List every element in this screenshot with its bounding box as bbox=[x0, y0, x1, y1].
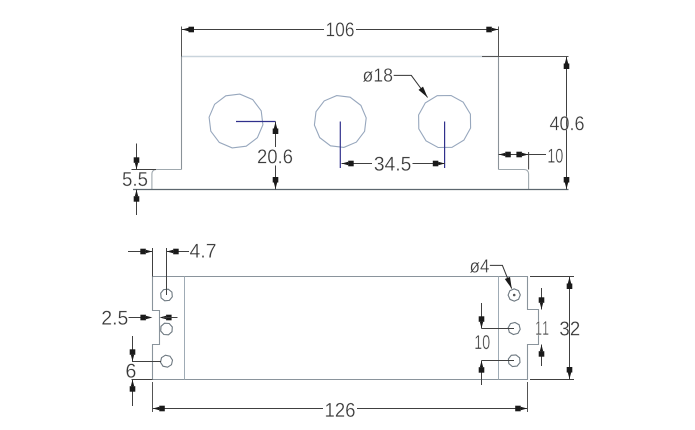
centerline circle 2 vertical bbox=[339, 122, 341, 169]
dimension 32: extension lines bbox=[530, 276, 574, 278]
dimension 34.5: text bbox=[375, 157, 384, 171]
hole circle 3 (ø18) bbox=[419, 96, 471, 148]
dimension 4.7: extension lines bbox=[152, 248, 154, 277]
centerline circle 1 horizontal bbox=[236, 121, 276, 123]
dimension 6: text bbox=[126, 364, 135, 378]
hole ø4 #1 bbox=[161, 289, 173, 301]
dimension 10 (bottom view): text bbox=[475, 335, 481, 349]
dimension 106: extension lines bbox=[181, 27, 183, 57]
hole circle 2 (ø18) bbox=[314, 96, 366, 148]
top view: left flange bbox=[152, 170, 182, 190]
dimension 10 (bottom view): extension lines bbox=[482, 328, 515, 330]
top view: body right edge bbox=[498, 57, 500, 170]
dimension 2.5: dimension line and arrows bbox=[129, 317, 150, 319]
top view: body bottom edge bbox=[133, 189, 569, 191]
dimension 106: dimension line bbox=[182, 29, 325, 31]
hole ø4 #6 bbox=[508, 355, 520, 367]
dimension 40.6: text bbox=[550, 116, 559, 130]
dimension 10 (top view): text bbox=[548, 149, 554, 163]
leader ø4: text bbox=[470, 262, 480, 273]
dimension 20.6: dimension line bbox=[275, 122, 277, 148]
bottom view: inner line right bbox=[498, 277, 500, 380]
dimension 11: text bbox=[536, 321, 541, 335]
dimension 5.5: arrows bbox=[136, 144, 138, 170]
dimension 2.5: text bbox=[102, 311, 111, 325]
dimension 4.7: text bbox=[190, 244, 200, 258]
leader ø18: text bbox=[363, 71, 373, 82]
dimension 32: dimension line bbox=[569, 277, 571, 380]
dimension 10 (top view): dimension line bbox=[499, 154, 547, 156]
centerline circle 3 vertical bbox=[444, 122, 446, 169]
top view: body top edge bbox=[182, 56, 499, 58]
hole ø4 #2 bbox=[161, 323, 173, 335]
dimension 106: text bbox=[327, 23, 334, 37]
hole ø4 #5 bbox=[508, 323, 520, 335]
hole ø4 #4 bbox=[508, 289, 520, 301]
dimension 11: arrows bbox=[541, 288, 543, 310]
dimension 5.5: text bbox=[123, 172, 132, 186]
dimension 6: extension lines bbox=[132, 361, 161, 363]
dimension 6: arrows bbox=[132, 336, 134, 362]
hole circle 1 (ø18) bbox=[209, 94, 263, 148]
bottom view: outline bbox=[153, 277, 539, 380]
dimension 10 (bottom view): arrows bbox=[481, 303, 483, 329]
dimension 32: text bbox=[560, 321, 569, 335]
dimension 4.7: dimension line and arrows bbox=[128, 251, 152, 253]
top view: body left edge bbox=[181, 57, 183, 170]
dimension 126: text bbox=[326, 403, 334, 417]
dimension 40.6: extension line top bbox=[482, 56, 569, 58]
dimension 126: extension lines bbox=[152, 382, 154, 412]
hole ø4 #3 bbox=[161, 355, 173, 367]
dimension 20.6: text bbox=[258, 149, 266, 163]
dimension 10 (top view): extension line bbox=[528, 152, 530, 170]
hole ø4 #4 center dot bbox=[513, 294, 516, 297]
leader ø4: leader line and arrow bbox=[490, 265, 512, 288]
dimension 5.5: extension line bbox=[132, 169, 157, 171]
bottom view: inner line left bbox=[184, 277, 186, 380]
dimension 126: dimension line bbox=[153, 408, 324, 410]
top view: right flange bbox=[499, 170, 529, 190]
leader ø18: leader line and arrow bbox=[394, 75, 428, 97]
dimension 34.5: dimension line bbox=[342, 163, 373, 165]
dimension 40.6: dimension line bbox=[566, 57, 568, 190]
